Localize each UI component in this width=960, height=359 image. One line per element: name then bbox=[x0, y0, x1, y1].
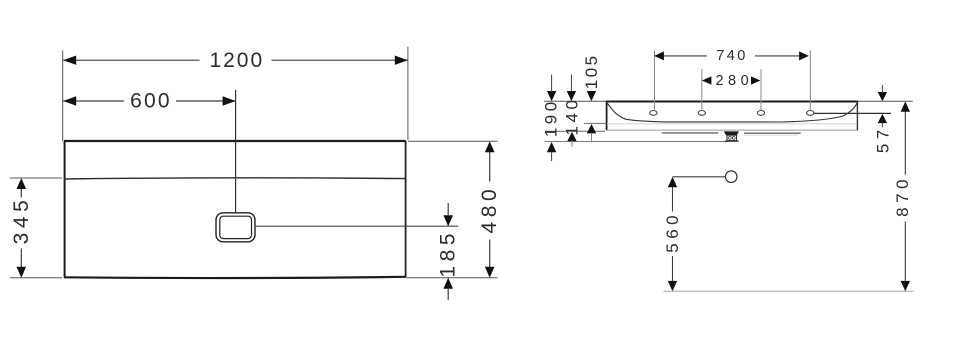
dimension 57 top arrow bbox=[878, 92, 887, 101]
basin top edge bbox=[64, 140, 406, 142]
bowl inner curve bbox=[608, 103, 858, 122]
hole1 extension line bbox=[654, 50, 656, 110]
svg-text:870: 870 bbox=[893, 175, 912, 217]
svg-text:345: 345 bbox=[10, 196, 33, 245]
svg-text:560: 560 bbox=[663, 211, 682, 253]
dimension 140 bottom arrow bbox=[567, 132, 576, 141]
dimension 560 bottom arrow bbox=[668, 281, 677, 291]
extension line right (1200) bbox=[407, 47, 409, 141]
bottom extension line (floor) bbox=[663, 290, 913, 292]
ext line underside-left (140) bbox=[545, 130, 605, 132]
dimension 190 bottom arrow bbox=[547, 142, 556, 152]
drain outer bbox=[216, 213, 255, 242]
dimension 140 top arrow bbox=[567, 91, 576, 101]
rim top thick line bbox=[606, 100, 859, 102]
hole4 extension line bbox=[809, 50, 811, 110]
dimension 345 line bbox=[20, 186, 22, 269]
svg-text:600: 600 bbox=[130, 90, 172, 113]
dimension 57 bottom arrow bbox=[878, 114, 887, 123]
dimension 280 right arrow bbox=[751, 76, 761, 84]
ext line hole4-right (57) bbox=[814, 112, 891, 114]
dimension 345 bottom arrow bbox=[17, 267, 27, 278]
rim thin extension left bbox=[544, 100, 606, 102]
svg-text:140: 140 bbox=[563, 97, 582, 136]
dimension 280 left arrow bbox=[702, 76, 712, 84]
drain fitting circles bbox=[729, 137, 732, 140]
ext line 105 (bowl bottom) bbox=[584, 122, 607, 124]
rim thin extension right bbox=[858, 100, 913, 102]
svg-text:1200: 1200 bbox=[209, 49, 264, 72]
dimension 870 bottom arrow bbox=[901, 281, 910, 291]
dimension 105 bottom arrow bbox=[587, 124, 596, 133]
drain inner bbox=[220, 216, 252, 238]
dimension 1200 left arrow bbox=[63, 56, 76, 65]
dimension 740 line bbox=[655, 55, 808, 57]
basin right edge bbox=[405, 141, 407, 278]
ext line bottom-right (185/480) bbox=[406, 277, 497, 279]
svg-text:190: 190 bbox=[542, 98, 561, 137]
ext line rim-left top (345) bbox=[10, 177, 62, 179]
dimension 560 line bbox=[672, 186, 674, 282]
centerline to drain bbox=[235, 90, 237, 212]
dimension 600 left arrow bbox=[63, 96, 76, 105]
faucet hole 4 bbox=[807, 111, 814, 116]
hole2 extension line bbox=[701, 69, 703, 110]
drain fitting body bbox=[727, 135, 737, 140]
dimension 105 top arrow bbox=[587, 91, 596, 101]
dimension 600 right arrow bbox=[223, 96, 236, 105]
underside line inside bbox=[662, 132, 801, 134]
mounting hole circle bbox=[725, 171, 737, 183]
ext line bottom-left (345) bbox=[10, 277, 62, 279]
dimension 560 top arrow bbox=[668, 177, 677, 187]
dimension 480 bottom arrow bbox=[485, 267, 495, 278]
basin rim line bbox=[64, 178, 406, 179]
faucet hole 2 bbox=[698, 111, 705, 116]
ext line basin-top-right (480) bbox=[408, 140, 498, 142]
dimension 185 top arrow bbox=[443, 215, 453, 226]
basin bottom edge bbox=[64, 277, 406, 278]
svg-text:740: 740 bbox=[716, 48, 747, 64]
dimension 190 top arrow bbox=[547, 91, 556, 101]
hole3 extension line bbox=[760, 69, 762, 110]
drain fitting bottom line bbox=[725, 140, 739, 142]
dimension 480 line bbox=[489, 151, 491, 268]
basin underside front edge bbox=[607, 129, 858, 131]
dimension 1200 right arrow bbox=[395, 56, 408, 65]
svg-text:185: 185 bbox=[437, 229, 460, 278]
dimension 740 right arrow bbox=[799, 51, 809, 60]
dimension 345 top arrow bbox=[17, 178, 27, 189]
extension line left (1200/600) bbox=[62, 50, 64, 141]
dimension 600 line bbox=[63, 100, 235, 102]
faucet hole 3 bbox=[757, 111, 764, 116]
bowl bottom front edge (faint) bbox=[607, 123, 857, 125]
svg-text:105: 105 bbox=[582, 53, 601, 89]
faucet hole 1 bbox=[650, 111, 657, 116]
svg-text:480: 480 bbox=[478, 185, 501, 234]
dimension 480 top arrow bbox=[485, 141, 495, 152]
ext line drain-right (185) bbox=[255, 225, 458, 227]
basin left edge bbox=[64, 141, 66, 278]
dimension 185 bottom arrow bbox=[443, 278, 453, 289]
svg-text:57: 57 bbox=[874, 125, 893, 153]
ext line to mounting hole (560) bbox=[673, 176, 726, 178]
ext line drain-bottom (190) bbox=[545, 141, 727, 143]
dimension 1200 line bbox=[63, 59, 408, 61]
dimension 870 line bbox=[904, 111, 906, 282]
dimension 870 top arrow bbox=[901, 101, 910, 111]
dimension 740 left arrow bbox=[654, 51, 664, 60]
basin right edge (section) bbox=[856, 102, 858, 131]
drain fitting flange bbox=[724, 131, 739, 135]
svg-text:280: 280 bbox=[715, 73, 753, 89]
basin left edge (section) bbox=[606, 102, 608, 131]
